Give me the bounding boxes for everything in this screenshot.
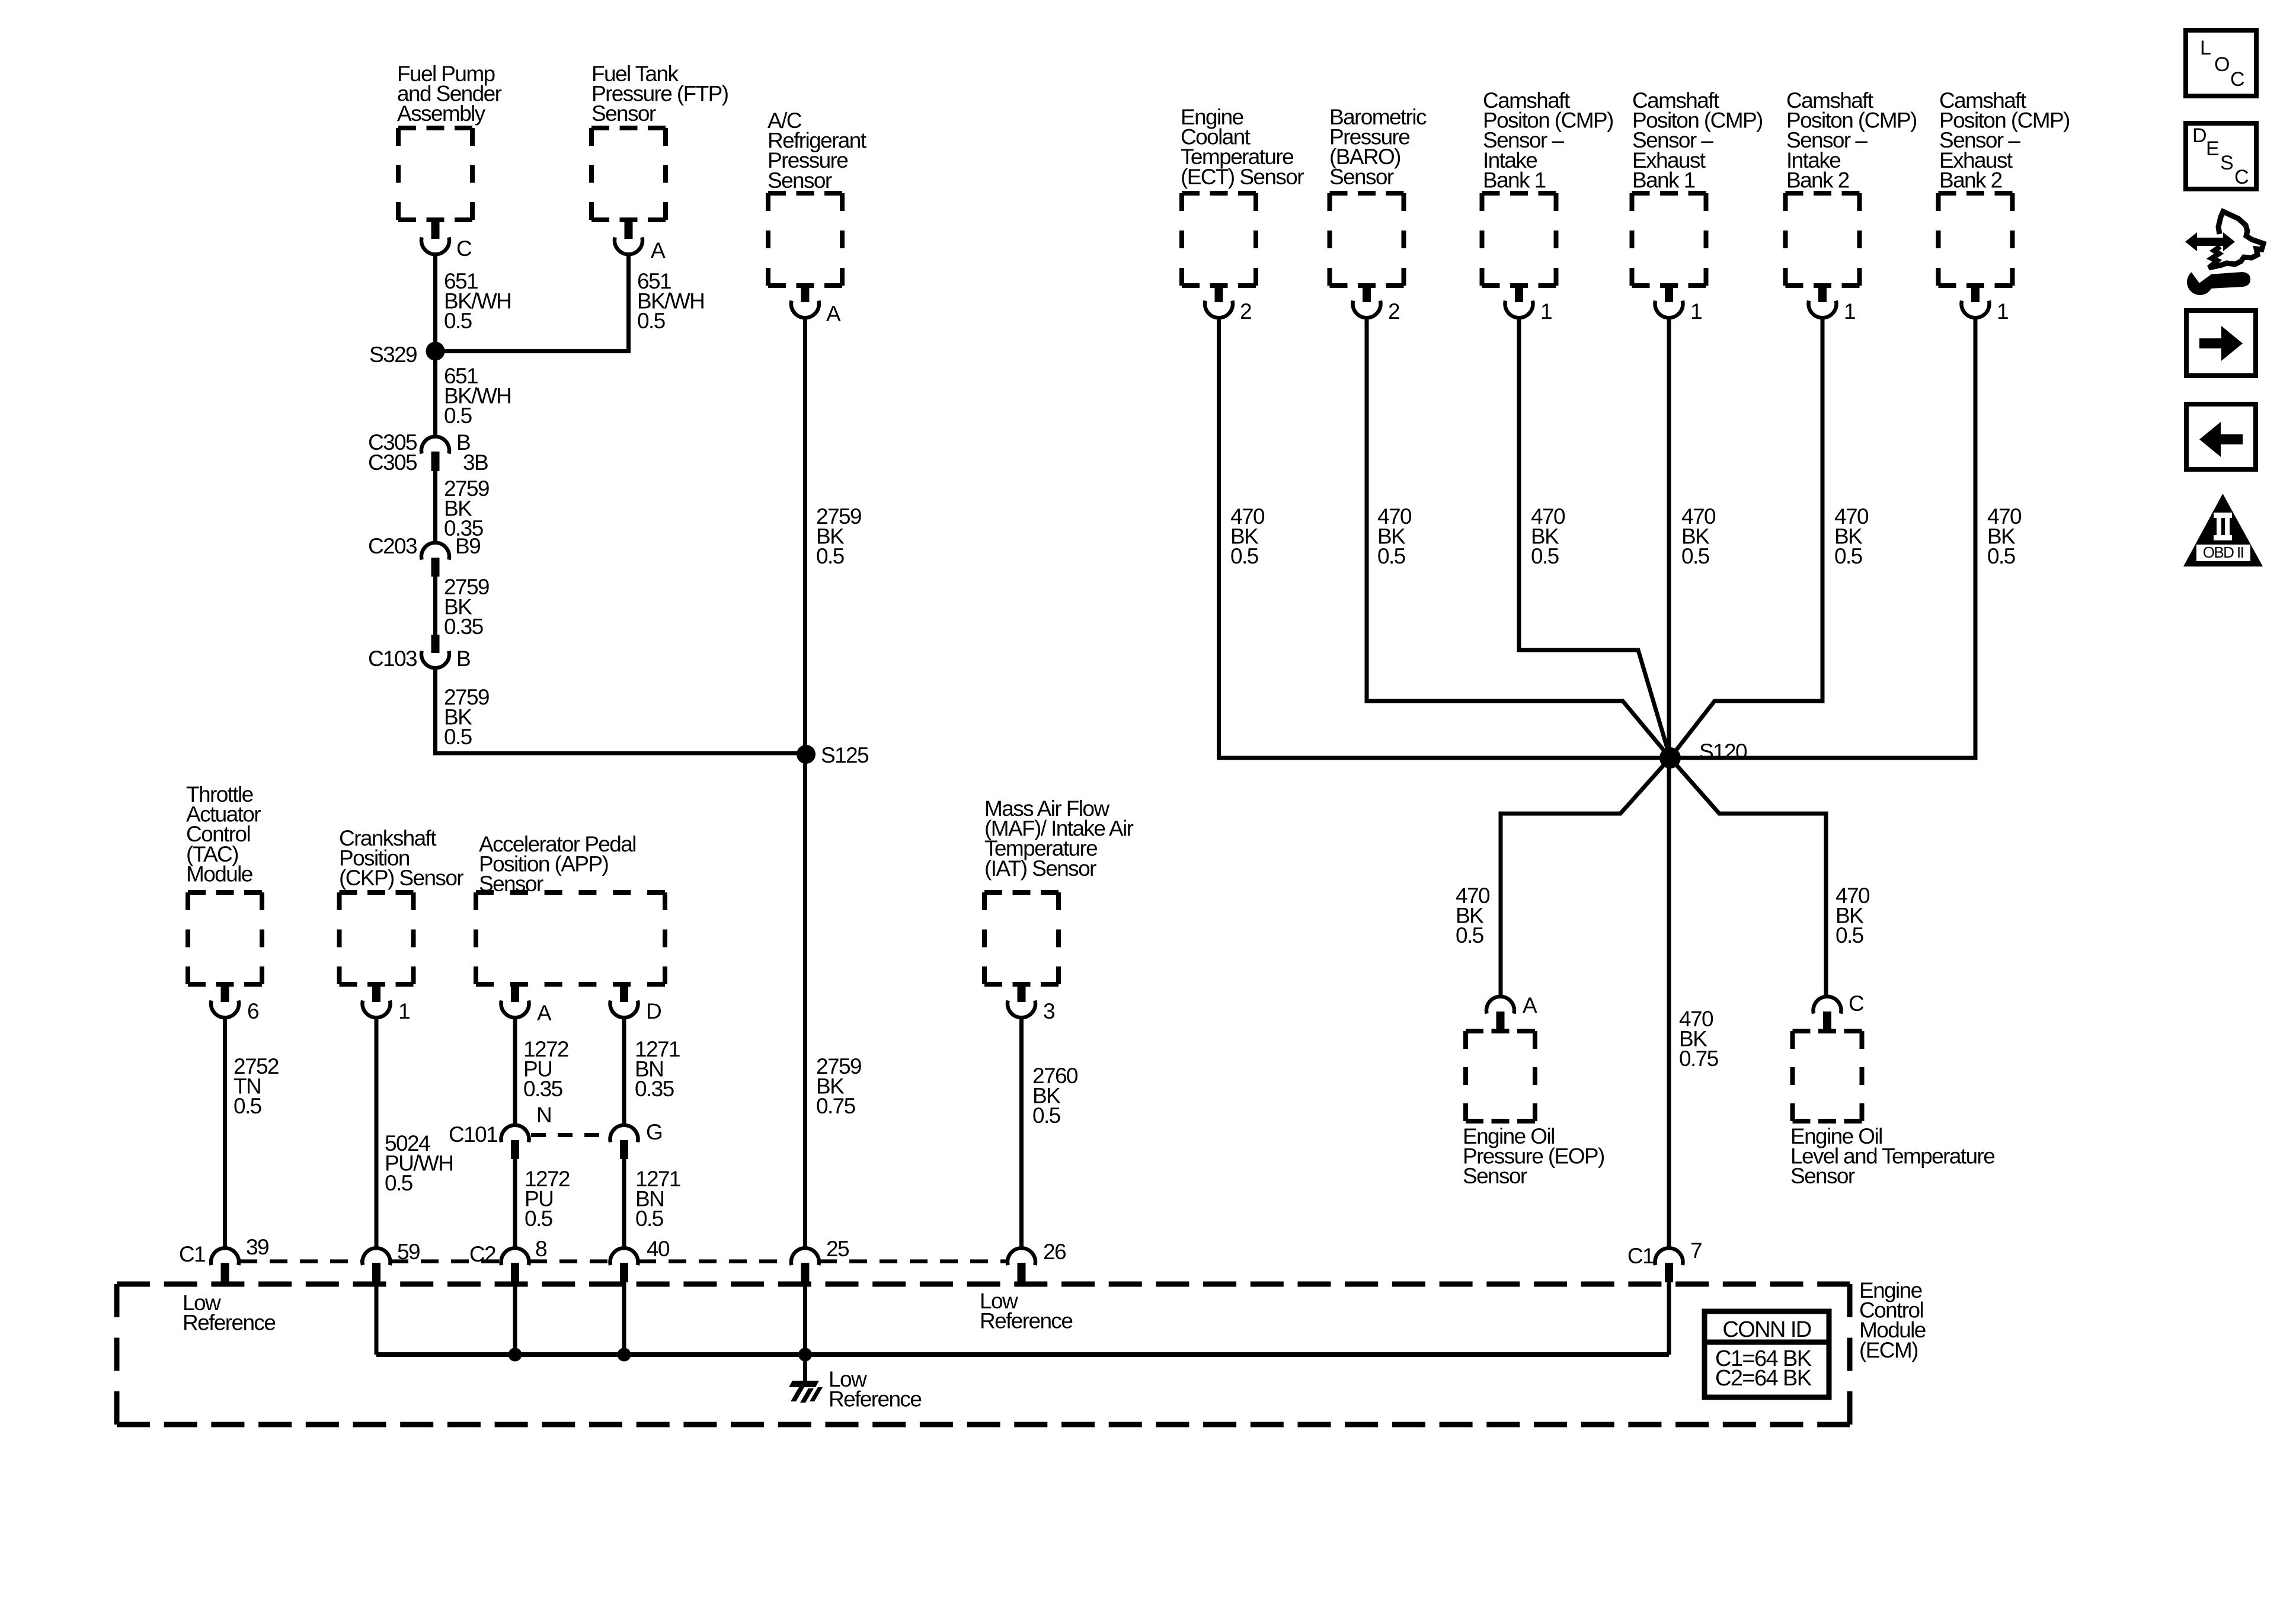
low reference collector wire inside ECM <box>376 1282 1669 1362</box>
svg-text:L: L <box>2200 37 2211 59</box>
wire 651 BK/WH 0.5 from pin C to S329 <box>436 253 511 351</box>
svg-text:Bank 1: Bank 1 <box>1483 168 1546 192</box>
wire 470 BK 0.5 from ECT pin 2 to S120 <box>1219 316 1671 758</box>
CONN ID table <box>1705 1311 1829 1397</box>
svg-text:OBD II: OBD II <box>2203 543 2243 561</box>
component: Crankshaft Position (CKP) Sensor <box>339 826 463 984</box>
svg-text:3B: 3B <box>463 450 488 475</box>
svg-text:0.5: 0.5 <box>525 1206 553 1231</box>
svg-text:39: 39 <box>246 1235 268 1259</box>
svg-text:25: 25 <box>826 1237 849 1261</box>
svg-text:3: 3 <box>1043 999 1054 1023</box>
connector pin 1 of CMP Sensor Exhaust Bank 1 <box>1655 286 1702 324</box>
wire 2759 BK 0.35 from C305 to C203 <box>436 471 489 543</box>
svg-text:0.5: 0.5 <box>1032 1103 1061 1128</box>
wire 2759 BK 0.5 from C103 to splice S125 <box>436 667 807 753</box>
sidebar icon: pointer and wrench (shift/adjust symbol) <box>2185 212 2263 295</box>
dashed pin bus between ECM pins 39 and 26 <box>239 1259 1007 1263</box>
svg-text:Module: Module <box>186 862 252 886</box>
svg-text:1: 1 <box>1690 299 1702 324</box>
svg-text:A: A <box>826 302 841 326</box>
svg-text:C103: C103 <box>368 646 417 671</box>
ECM connector pin C1 39 <box>179 1235 268 1284</box>
ECM dashed border box <box>117 1284 1850 1425</box>
svg-text:0.5: 0.5 <box>234 1094 262 1118</box>
component: BARO Sensor <box>1329 105 1427 286</box>
connector pin A of A/C sensor <box>791 286 841 326</box>
svg-text:C101: C101 <box>449 1122 497 1147</box>
component: Throttle Actuator Control (TAC) Module <box>186 782 262 984</box>
label: Low Reference at ECM pin 26 <box>980 1289 1072 1333</box>
wire 651 BK/WH 0.5 from S329 to C305 <box>436 351 511 437</box>
svg-text:0.5: 0.5 <box>444 404 472 428</box>
sidebar icon: left arrow box <box>2186 404 2256 469</box>
ECM connector pin C1 7 <box>1627 1238 1702 1282</box>
svg-text:1: 1 <box>1844 299 1855 324</box>
svg-text:2: 2 <box>1388 299 1399 324</box>
svg-text:0.5: 0.5 <box>635 1206 664 1231</box>
connector pin 2 of ECT Sensor <box>1205 286 1251 324</box>
ECM connector pin 25 <box>791 1237 849 1282</box>
svg-text:S125: S125 <box>821 743 869 767</box>
svg-text:2: 2 <box>1240 299 1251 324</box>
svg-text:G: G <box>646 1120 662 1144</box>
svg-text:1: 1 <box>398 999 410 1023</box>
svg-text:Sensor: Sensor <box>591 101 656 126</box>
wire 470 BK 0.5 from CMP Intake Bank 2 pin 1 to S120 <box>1670 316 1869 758</box>
svg-text:(ECM): (ECM) <box>1859 1338 1918 1362</box>
svg-text:Sensor: Sensor <box>1790 1164 1855 1188</box>
svg-text:C1: C1 <box>179 1242 205 1266</box>
svg-text:0.5: 0.5 <box>637 309 666 333</box>
svg-text:Sensor: Sensor <box>768 168 832 193</box>
sidebar icon: LOC box <box>2186 30 2256 96</box>
ECM connector pin C2 8 <box>469 1237 546 1282</box>
svg-text:0.5: 0.5 <box>1230 544 1259 568</box>
svg-text:Bank 1: Bank 1 <box>1632 168 1695 192</box>
component: CMP Sensor Exhaust Bank 1 <box>1632 88 1763 286</box>
svg-text:Reference: Reference <box>183 1311 275 1335</box>
connector pin C of EOLT sensor <box>1814 991 1865 1031</box>
svg-text:0.5: 0.5 <box>1377 544 1406 568</box>
wire 2752 TN 0.5 from TAC pin 6 to ECM pin 39 <box>225 1016 279 1248</box>
ECM connector pin 26 <box>1008 1240 1066 1284</box>
ECM connector pin 40 <box>610 1237 670 1282</box>
svg-text:0.5: 0.5 <box>385 1171 413 1195</box>
svg-text:A: A <box>537 1001 552 1025</box>
svg-text:C2=64 BK: C2=64 BK <box>1715 1366 1812 1391</box>
connector pin D of APP Sensor <box>610 984 661 1023</box>
svg-text:D: D <box>646 999 661 1023</box>
wire 470 BK 0.5 from CMP Exhaust Bank 2 pin 1 to S120 <box>1670 316 2022 758</box>
svg-text:0.5: 0.5 <box>1531 544 1559 568</box>
wire 470 BK 0.75 from S120 to ECM pin C1-7 <box>1669 758 1719 1248</box>
svg-text:C1: C1 <box>1627 1244 1654 1268</box>
connector pin 2 of BARO Sensor <box>1353 286 1400 324</box>
svg-text:0.5: 0.5 <box>1987 544 2016 568</box>
component: CMP Sensor Exhaust Bank 2 <box>1939 88 2070 286</box>
dashed harness line between C101 pins N and G <box>531 1133 608 1137</box>
component: A/C Refrigerant Pressure Sensor <box>768 108 867 286</box>
wire 651 BK/WH 0.5 from FTP pin A to S329 <box>436 253 705 351</box>
connector pin C of Fuel Pump <box>421 220 472 261</box>
svg-text:0.35: 0.35 <box>444 614 484 639</box>
svg-text:(CKP) Sensor: (CKP) Sensor <box>339 866 463 890</box>
component: Accelerator Pedal Position (APP) Sensor <box>476 832 665 984</box>
svg-text:O: O <box>2214 53 2229 76</box>
wire 1272 PU 0.35 from APP pin A to C101 pin N <box>515 1016 568 1125</box>
svg-text:8: 8 <box>535 1237 546 1261</box>
svg-text:0.5: 0.5 <box>816 544 845 568</box>
connector pin 1 of CMP Sensor Intake Bank 2 <box>1809 286 1856 324</box>
inline connector C305 (pins B / 3B) <box>368 430 488 475</box>
svg-text:C: C <box>2230 68 2244 91</box>
svg-text:0.5: 0.5 <box>1456 923 1484 948</box>
svg-text:0.35: 0.35 <box>635 1077 674 1101</box>
wire 1272 PU 0.5 from C101 pin N to ECM pin 8 <box>515 1159 570 1248</box>
connector pin A of APP Sensor <box>501 984 552 1025</box>
component: Mass Air Flow (MAF)/ Intake Air Temperature (IAT) Sensor <box>984 796 1134 984</box>
sidebar icon: DESC box <box>2186 123 2256 189</box>
svg-text:26: 26 <box>1043 1240 1066 1264</box>
wire 470 BK 0.5 from BARO pin 2 to S120 <box>1367 316 1670 758</box>
svg-text:Reference: Reference <box>829 1387 921 1411</box>
splice S125 <box>797 743 869 767</box>
component: Engine Oil Pressure (EOP) Sensor <box>1463 1031 1604 1188</box>
connector pin 1 of CKP Sensor <box>363 984 410 1023</box>
svg-text:0.35: 0.35 <box>523 1077 563 1101</box>
wire 470 BK 0.5 from S120 to EOP sensor pin A <box>1456 758 1670 997</box>
label: Engine Control Module (ECM) <box>1859 1278 1926 1362</box>
connector pin A of EOP sensor <box>1486 993 1537 1031</box>
ECM connector pin 59 <box>363 1240 420 1282</box>
svg-text:0.5: 0.5 <box>1835 923 1864 948</box>
svg-text:B9: B9 <box>455 534 480 558</box>
svg-text:Reference: Reference <box>980 1309 1072 1333</box>
svg-text:C: C <box>2234 166 2249 188</box>
wire 470 BK 0.5 from CMP Exhaust Bank 1 pin 1 to S120 <box>1669 316 1716 758</box>
svg-text:S329: S329 <box>369 343 417 367</box>
svg-text:7: 7 <box>1690 1238 1702 1263</box>
wire 1271 BN 0.5 from C101 pin G to ECM pin 40 <box>624 1159 680 1248</box>
svg-text:1: 1 <box>1997 299 2008 324</box>
component: CMP Sensor Intake Bank 1 <box>1482 88 1614 286</box>
svg-text:1: 1 <box>1540 299 1552 324</box>
svg-text:B: B <box>456 646 470 671</box>
svg-text:C203: C203 <box>368 534 417 558</box>
inline connector C101 pin N <box>449 1103 551 1159</box>
splice S120 <box>1659 740 1747 769</box>
splice S329 <box>369 342 445 367</box>
svg-text:0.5: 0.5 <box>444 725 472 749</box>
svg-text:0.5: 0.5 <box>1834 544 1863 568</box>
svg-text:A: A <box>1523 993 1537 1017</box>
component: Fuel Pump and Sender Assembly <box>397 62 502 220</box>
svg-text:C: C <box>456 236 472 261</box>
wire 2760 BK 0.5 from MAF pin 3 to ECM pin 26 <box>1022 1016 1078 1248</box>
inline connector C101 pin G <box>610 1120 663 1159</box>
svg-text:0.5: 0.5 <box>444 309 472 333</box>
svg-text:Bank 2: Bank 2 <box>1939 168 2002 192</box>
inline connector C203 (pin B9) <box>368 534 480 577</box>
svg-text:S120: S120 <box>1699 740 1747 764</box>
svg-text:0.5: 0.5 <box>1681 544 1710 568</box>
svg-text:Bank 2: Bank 2 <box>1786 168 1849 192</box>
svg-text:40: 40 <box>647 1237 670 1261</box>
svg-text:0.75: 0.75 <box>816 1094 856 1118</box>
svg-text:6: 6 <box>247 999 258 1023</box>
svg-text:Sensor: Sensor <box>1329 165 1394 189</box>
component: ECT Sensor <box>1181 105 1304 286</box>
wire 1271 BN 0.35 from APP pin D to C101 pin G <box>624 1016 680 1125</box>
ground: Low Reference chassis ground <box>789 1282 921 1411</box>
svg-text:C305: C305 <box>368 450 417 475</box>
svg-text:S: S <box>2220 152 2233 174</box>
svg-text:Assembly: Assembly <box>397 101 486 126</box>
svg-text:N: N <box>536 1103 551 1127</box>
connector pin 1 of CMP Sensor Intake Bank 1 <box>1505 286 1552 324</box>
svg-text:(ECT) Sensor: (ECT) Sensor <box>1181 165 1304 189</box>
connector pin 1 of CMP Sensor Exhaust Bank 2 <box>1962 286 2009 324</box>
component: CMP Sensor Intake Bank 2 <box>1786 88 1917 286</box>
connector pin 6 of TAC Module <box>211 984 258 1023</box>
svg-text:(IAT) Sensor: (IAT) Sensor <box>984 856 1096 881</box>
svg-text:E: E <box>2206 137 2219 160</box>
connector pin A of FTP Sensor <box>615 220 666 263</box>
label: Low Reference at ECM pin 39 <box>183 1291 275 1335</box>
wire 2759 BK 0.5 from A/C pin A to S125 <box>805 316 861 754</box>
svg-text:CONN ID: CONN ID <box>1722 1317 1811 1342</box>
svg-text:Sensor: Sensor <box>1463 1164 1527 1188</box>
wire 470 BK 0.5 from S120 to EOLT sensor pin C <box>1670 758 1870 997</box>
svg-text:0.75: 0.75 <box>1679 1046 1719 1071</box>
svg-text:D: D <box>2192 124 2206 147</box>
svg-text:A: A <box>651 238 666 263</box>
connector pin 3 of MAF/IAT Sensor <box>1008 984 1054 1023</box>
component: Engine Oil Level and Temperature Sensor <box>1790 1031 1994 1188</box>
sidebar icon: right arrow box <box>2186 311 2256 376</box>
svg-text:C: C <box>1849 991 1864 1016</box>
sidebar icon: OBD II triangle <box>2183 494 2263 566</box>
wire 2759 BK 0.35 from C203 to C103 <box>436 575 489 639</box>
wire 5024 PU/WH 0.5 from CKP pin 1 to ECM pin 59 <box>376 1016 453 1248</box>
component: Fuel Tank Pressure (FTP) Sensor <box>591 62 728 220</box>
wire 2759 BK 0.75 from S125 to ECM pin 25 <box>805 754 861 1248</box>
inline connector C103 (pin B) <box>368 635 470 671</box>
wire 470 BK 0.5 from CMP Intake Bank 1 pin 1 to S120 <box>1519 316 1670 758</box>
